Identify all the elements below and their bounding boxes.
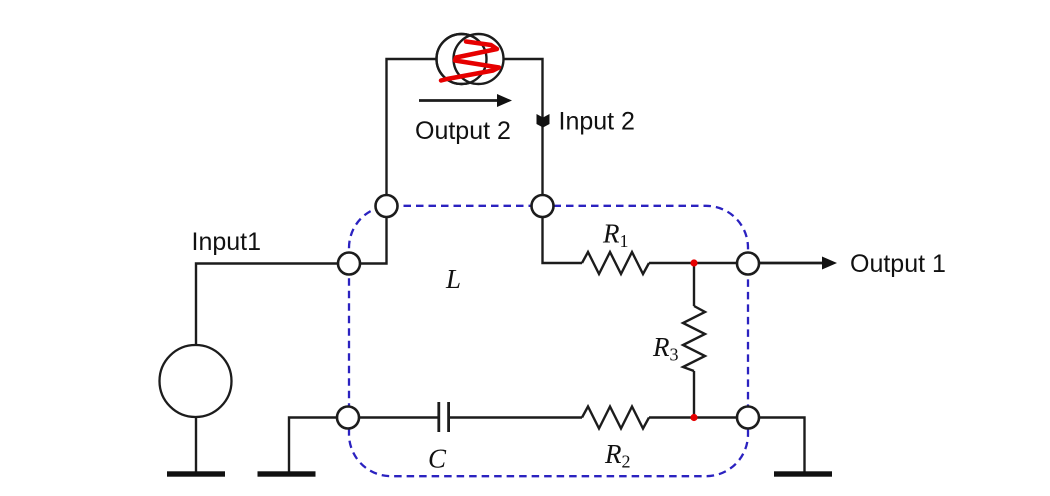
svg-text:Output 1: Output 1: [850, 250, 946, 278]
svg-text:C: C: [428, 444, 447, 474]
svg-text:R1: R1: [602, 219, 629, 252]
svg-text:Output 2: Output 2: [415, 117, 511, 145]
svg-text:R3: R3: [652, 332, 679, 365]
svg-text:R2: R2: [604, 439, 631, 472]
svg-text:L: L: [445, 264, 461, 294]
svg-text:Input 2: Input 2: [559, 108, 635, 136]
svg-text:Input1: Input1: [192, 228, 262, 256]
